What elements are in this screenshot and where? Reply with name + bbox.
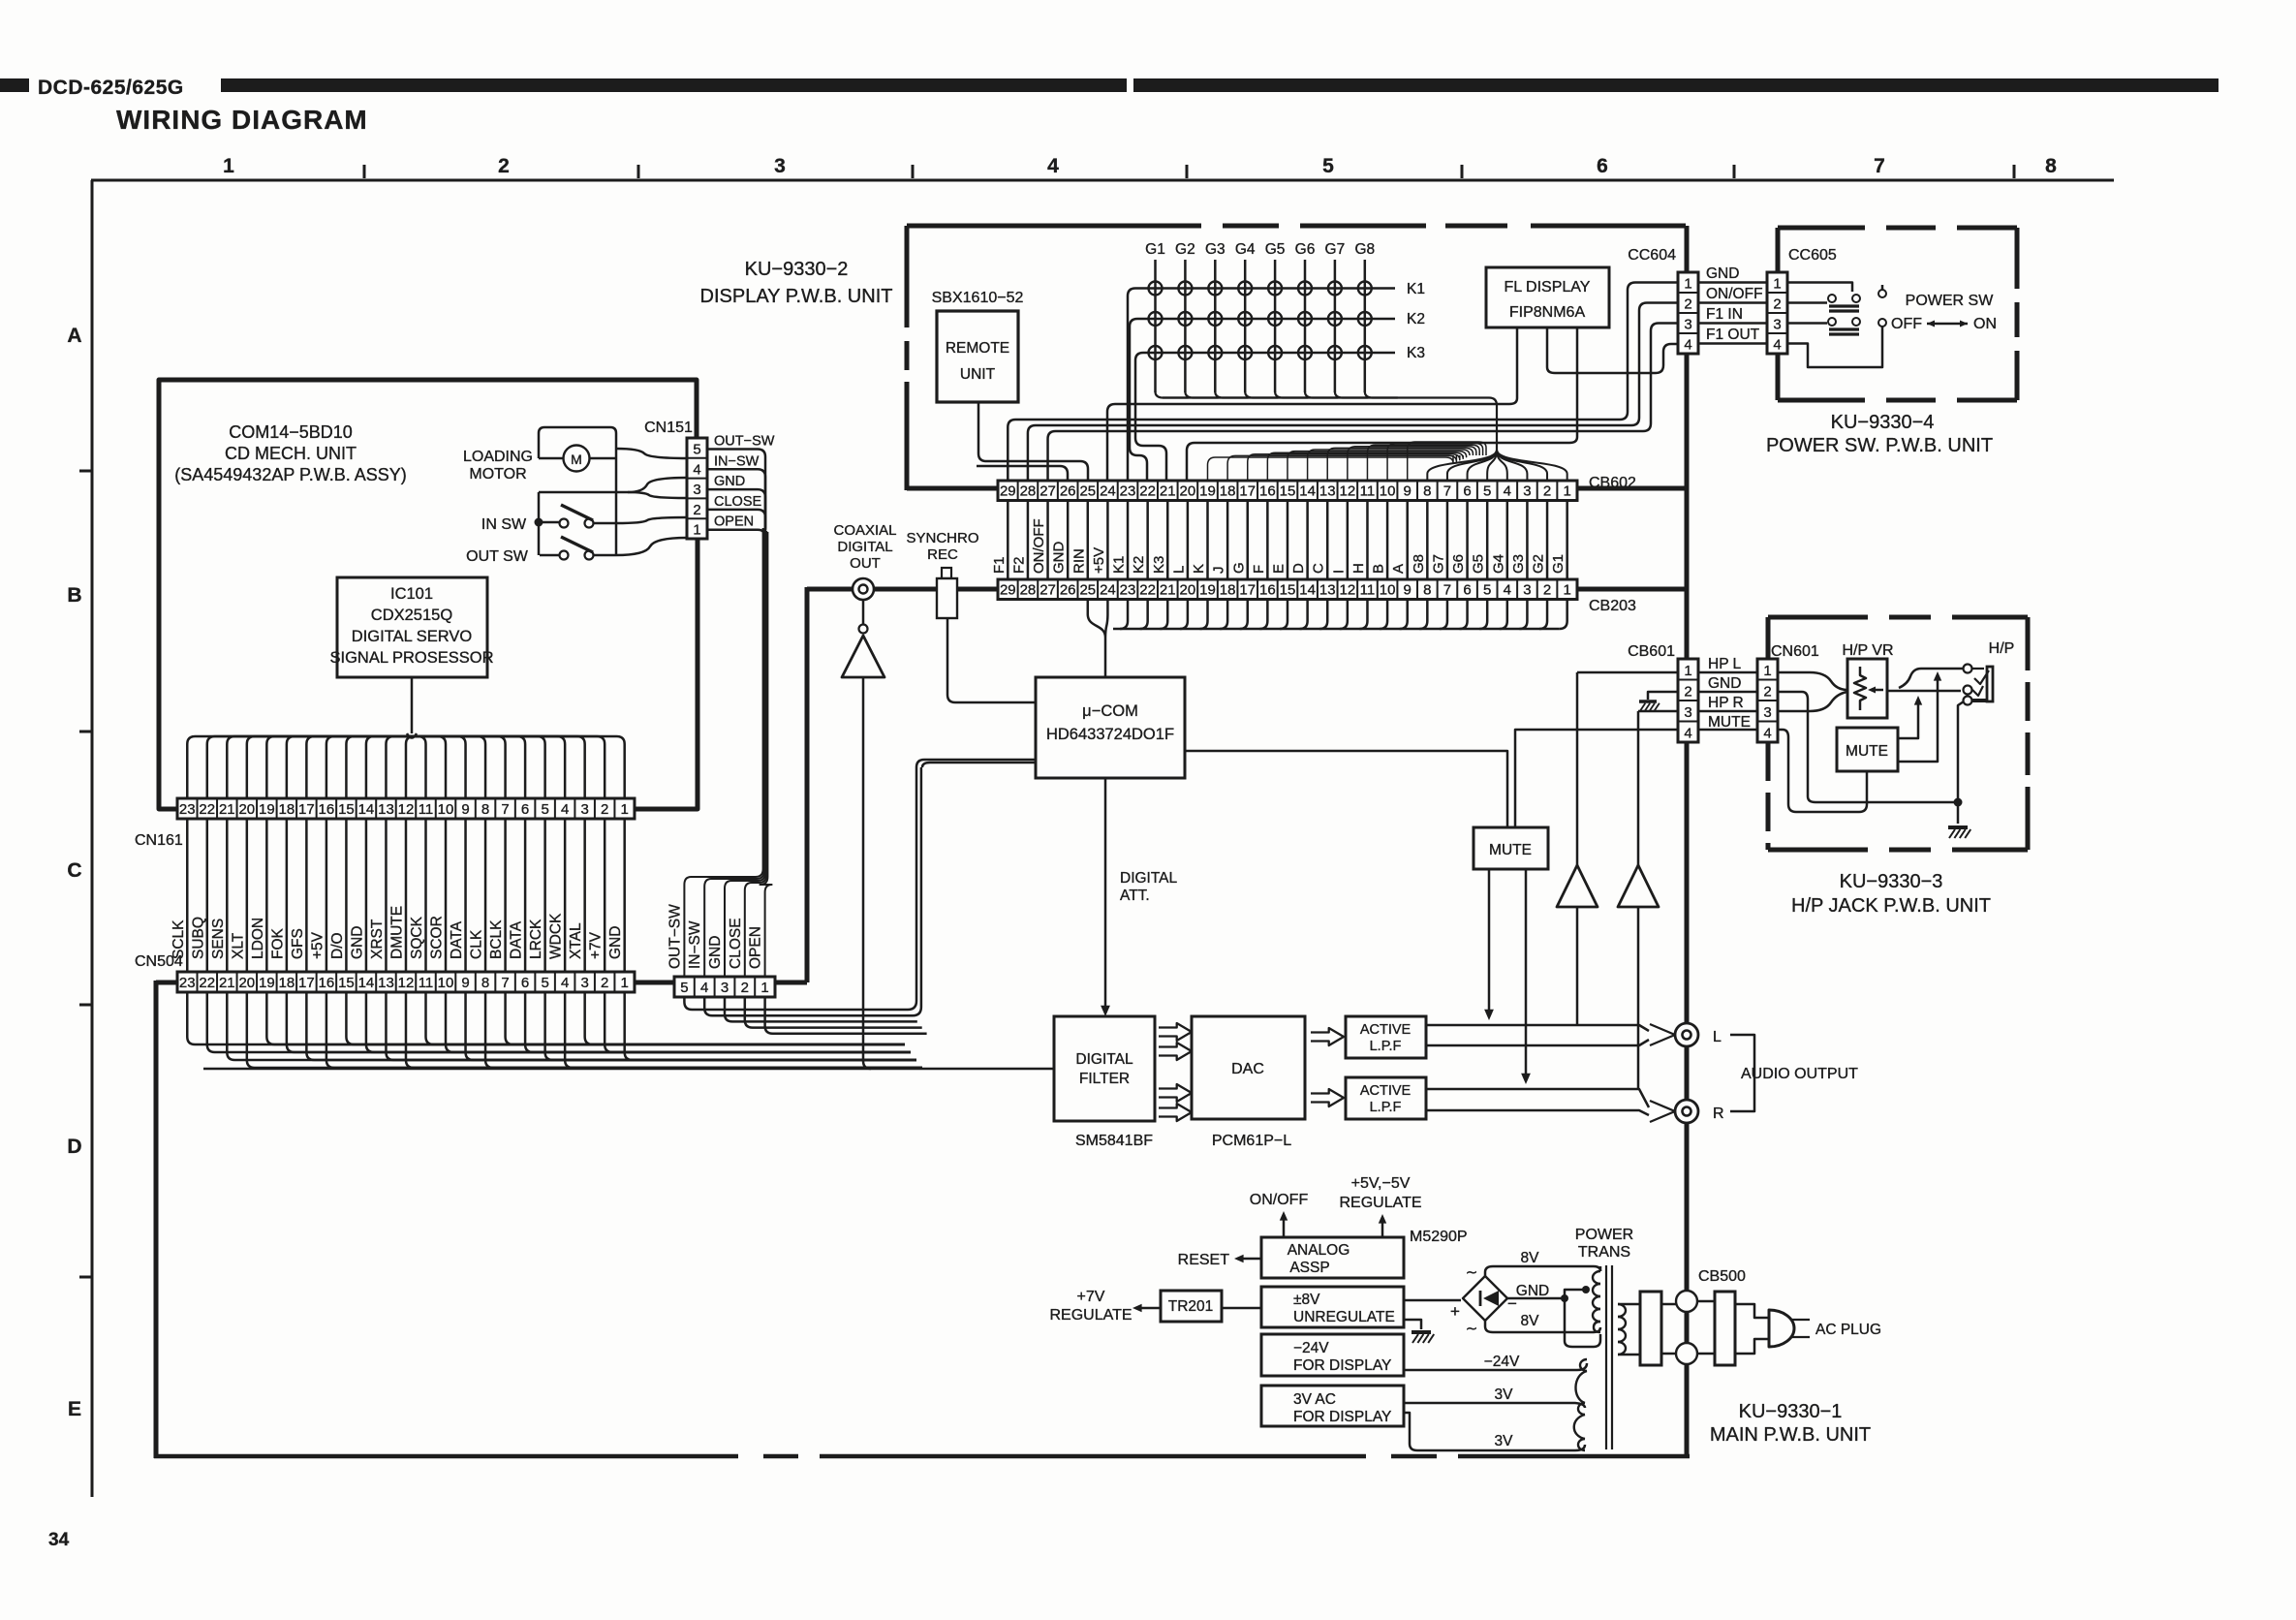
switch S1 in-sw [560,519,569,528]
svg-text:−24V: −24V [1484,1354,1520,1370]
svg-text:HD6433724DO1F: HD6433724DO1F [1046,726,1174,743]
svg-text:1: 1 [1684,276,1691,293]
svg-text:COM14−5BD10: COM14−5BD10 [229,422,353,442]
wire FL display pin to CB602 pin24 [1107,327,1517,481]
svg-text:4: 4 [1773,337,1781,354]
frame column tick marks [364,165,2014,178]
wire 3V bottom [1404,1413,1585,1450]
svg-text:5: 5 [693,442,700,458]
wires CB602 to CB203 [1008,501,1567,580]
svg-text:CB500: CB500 [1698,1268,1746,1285]
audio output bracket [1730,1035,1754,1111]
connector CN (loading sw) 5-1 row [674,977,775,997]
svg-text:11: 11 [1360,582,1376,599]
arrow on/off [1283,1215,1286,1237]
svg-text:18: 18 [1220,582,1236,599]
svg-text:10: 10 [438,801,454,818]
svg-text:OUT−SW: OUT−SW [714,434,775,450]
svg-text:29: 29 [1000,483,1016,500]
svg-text:IC101: IC101 [390,585,433,603]
svg-text:DMUTE: DMUTE [388,906,405,959]
connector CN504 row [177,972,635,992]
svg-text:21: 21 [1160,483,1176,500]
wire mute to L line arrow [1488,869,1491,1010]
svg-text:K3: K3 [1151,556,1167,574]
svg-text:6: 6 [521,801,529,818]
svg-text:6: 6 [521,975,529,991]
svg-text:6: 6 [1463,582,1471,599]
svg-text:F1 OUT: F1 OUT [1706,327,1760,343]
wire bundle G columns to CB602 pins 8-1 [1156,391,1567,481]
svg-text:REGULATE: REGULATE [1339,1195,1421,1211]
3V AC for display box [1261,1386,1404,1426]
svg-text:SM5841BF: SM5841BF [1075,1133,1153,1149]
svg-text:CN504: CN504 [135,953,183,970]
svg-text:G7: G7 [1325,241,1346,258]
svg-text:GND: GND [1051,542,1068,575]
svg-text:10: 10 [1380,483,1396,500]
page header bar [221,78,1127,92]
svg-text:R: R [1713,1106,1724,1122]
volume resistor [1854,667,1866,710]
svg-text:20: 20 [1180,582,1196,599]
svg-text:PCM61P−L: PCM61P−L [1212,1133,1291,1149]
svg-text:4: 4 [1684,726,1691,742]
svg-text:A: A [1390,564,1407,574]
svg-text:23: 23 [179,975,196,991]
svg-text:9: 9 [461,801,469,818]
svg-text:G1: G1 [1550,554,1567,574]
svg-text:SBX1610−52: SBX1610−52 [932,290,1024,306]
wire switch top rail [539,491,628,494]
svg-text:3: 3 [580,801,588,818]
svg-text:FIP8NM6A: FIP8NM6A [1509,304,1586,321]
svg-text:25: 25 [1079,483,1096,500]
svg-text:3: 3 [580,975,588,991]
svg-text:22: 22 [199,801,215,818]
wires CN601 to volume [1778,672,1847,690]
svg-text:IN SW: IN SW [481,516,527,533]
svg-text:3: 3 [721,980,729,996]
svg-text:GFS: GFS [290,928,306,959]
wire jack top contact [1899,669,1963,688]
svg-text:CC605: CC605 [1788,247,1837,264]
svg-text:9: 9 [1404,582,1412,599]
svg-text:11: 11 [419,801,434,818]
audio output jack R [1675,1100,1698,1123]
line filter box [1640,1292,1661,1365]
svg-text:1: 1 [760,980,768,996]
svg-text:MOTOR: MOTOR [469,466,526,483]
svg-text:14: 14 [1299,582,1316,599]
svg-text:CN161: CN161 [135,832,183,849]
svg-text:OUT: OUT [850,555,881,572]
svg-text:+7V: +7V [1077,1289,1105,1305]
CD mech unit board outline COM14-5BD10 [159,380,697,809]
coax digital out jack [853,578,874,600]
svg-text:H/P VR: H/P VR [1842,642,1893,659]
svg-text:IN−SW: IN−SW [687,920,703,969]
svg-text:8: 8 [2045,155,2057,177]
svg-text:2: 2 [1773,296,1781,313]
svg-text:8V: 8V [1521,1250,1540,1266]
svg-text:LOADING: LOADING [463,449,533,465]
svg-text:MUTE: MUTE [1489,842,1532,858]
svg-text:13: 13 [378,975,394,991]
svg-text:B: B [67,584,81,607]
wire CB601 pin1 to amp L [1577,671,1678,674]
wire TR201 to unregulate [1222,1307,1261,1310]
svg-text:18: 18 [1220,483,1236,500]
wire uCOM left inputs [916,760,1036,767]
plus minus 8V unregulate box [1261,1287,1404,1327]
svg-text:CB601: CB601 [1628,643,1675,660]
wire uCOM digital att arrow [1104,778,1107,1013]
svg-text:ON/OFF: ON/OFF [1031,518,1047,574]
wire CN151 to CN161 thick link [635,539,698,809]
svg-text:E: E [1270,564,1287,574]
svg-text:E: E [68,1398,81,1420]
svg-text:K3: K3 [1407,345,1425,361]
wire fan bundle IC101 to CN161 cells [187,736,624,798]
wires CC604 to CC605 [1698,281,1767,284]
synchro rec sensor [942,568,951,578]
svg-text:29: 29 [1000,582,1016,599]
svg-text:16: 16 [319,801,335,818]
svg-text:26: 26 [1060,483,1076,500]
svg-text:28: 28 [1020,582,1037,599]
svg-text:12: 12 [1340,582,1356,599]
svg-text:POWER SW. P.W.B. UNIT: POWER SW. P.W.B. UNIT [1766,435,1993,456]
svg-text:24: 24 [1100,483,1116,500]
frame row tick marks [79,471,93,1277]
svg-text:1: 1 [693,522,700,539]
svg-text:+5V,−5V: +5V,−5V [1351,1175,1411,1192]
wire bundle CB602 mid pins texture [1208,442,1487,481]
wire CN504 left stub to main board edge [156,981,178,985]
svg-text:SIGNAL PROSESSOR: SIGNAL PROSESSOR [329,649,493,667]
svg-text:CN151: CN151 [644,420,693,436]
svg-text:ACTIVE: ACTIVE [1360,1083,1412,1099]
svg-text:ON/OFF: ON/OFF [1706,286,1763,302]
svg-text:2: 2 [1543,582,1551,599]
active LPF L box [1346,1016,1426,1058]
connector CN161 row [177,798,635,819]
main board left edge KU-9330-1 [154,981,159,1458]
svg-text:UNREGULATE: UNREGULATE [1293,1309,1395,1325]
wire CN601 pin2 gnd net [1778,692,1958,802]
svg-text:23: 23 [1120,582,1136,599]
svg-text:28: 28 [1020,483,1037,500]
frame left border [91,180,94,1497]
svg-text:8V: 8V [1521,1313,1540,1329]
svg-text:8: 8 [481,975,489,991]
svg-text:CD MECH. UNIT: CD MECH. UNIT [225,444,357,463]
svg-text:∼: ∼ [1466,1321,1478,1337]
svg-text:COAXIAL: COAXIAL [833,522,896,539]
svg-text:34: 34 [48,1530,70,1550]
svg-text:4: 4 [561,975,569,991]
remote unit box [937,311,1018,402]
svg-text:L: L [1713,1029,1722,1045]
wire motor loop [539,427,616,458]
signal name labels between CN161 and CN504 [171,906,624,959]
headphone amp R [1618,865,1659,907]
svg-text:23: 23 [179,801,196,818]
wires filter to CB500 [1661,1303,1676,1306]
svg-text:GND: GND [714,474,745,489]
node IN SW junction [535,518,543,527]
wires motor+switch harness to CN151 [616,449,687,458]
svg-text:L.P.F: L.P.F [1370,1100,1402,1115]
svg-text:DATA: DATA [509,920,525,959]
svg-text:1: 1 [1563,582,1570,599]
connector CB500 circles [1676,1291,1697,1312]
wire thick bus into CB203 [807,587,998,592]
svg-text:3: 3 [1684,704,1691,721]
svg-text:13: 13 [1319,582,1336,599]
svg-text:2: 2 [1684,684,1691,701]
ground at CB601 pin2 [1648,692,1678,700]
svg-text:F1: F1 [991,556,1008,574]
wires CB500 to plug filter [1697,1300,1715,1303]
svg-text:15: 15 [338,975,355,991]
main board bottom edge dashed [154,1454,738,1459]
ground hp board [1948,827,1970,838]
svg-text:GND: GND [1708,675,1741,692]
svg-text:OPEN: OPEN [714,514,754,530]
svg-text:15: 15 [1280,483,1296,500]
svg-text:17: 17 [298,975,315,991]
svg-text:23: 23 [1120,483,1136,500]
svg-text:POWER SW: POWER SW [1906,293,1995,309]
node gnd junction [1954,798,1963,807]
wire mute to R line arrow [1525,869,1528,1074]
svg-text:H: H [1350,563,1367,574]
svg-text:F2: F2 [1010,556,1027,574]
svg-text:4: 4 [1504,582,1511,599]
wires CB602 pins 29-26 to CC604 [977,283,1678,482]
svg-text:WDCK: WDCK [548,913,565,959]
wires CN161 to CN504 with signal names [187,819,624,972]
svg-text:FOR DISPLAY: FOR DISPLAY [1293,1409,1391,1425]
svg-text:12: 12 [398,975,415,991]
svg-text:7: 7 [1443,483,1451,500]
svg-text:M: M [571,452,582,467]
svg-text:19: 19 [1199,582,1216,599]
svg-text:GND: GND [707,936,724,969]
frame row letters [67,325,81,1420]
svg-text:G8: G8 [1354,241,1375,258]
FL display box FIP8NM6A [1486,267,1609,327]
svg-text:10: 10 [438,975,454,991]
wire 3V top [1404,1403,1585,1408]
svg-text:DIGITAL: DIGITAL [1120,870,1178,887]
display board bottom stub right [1577,486,1687,491]
svg-text:2: 2 [601,801,608,818]
svg-text:18: 18 [279,801,295,818]
svg-text:G2: G2 [1531,554,1547,574]
svg-text:CLK: CLK [469,929,485,959]
connector CN151 [687,438,707,539]
wire bridge top to transformer [1485,1266,1600,1276]
svg-text:1: 1 [1563,483,1570,500]
svg-text:+5V: +5V [309,931,326,959]
svg-text:SYNCHRO: SYNCHRO [906,530,978,546]
power transformer T1 secondary coils [1574,1266,1600,1450]
svg-text:ATT.: ATT. [1120,888,1150,904]
svg-text:KU−9330−2: KU−9330−2 [745,259,849,280]
svg-text:OFF: OFF [1891,316,1922,332]
svg-text:2: 2 [1763,684,1771,701]
svg-text:6: 6 [1463,483,1471,500]
svg-text:H/P: H/P [1989,640,2015,657]
wire connector to vertical trunk [775,981,807,985]
svg-text:20: 20 [238,975,255,991]
svg-text:ON/OFF: ON/OFF [1250,1192,1309,1208]
wire mute to top contact arrow [1898,675,1938,762]
wire bundle CN151 tags down to lower connector [684,528,762,977]
transformer core [1605,1265,1607,1449]
svg-text:5: 5 [1483,483,1491,500]
svg-text:10: 10 [1380,582,1396,599]
wire FL display pin to CB602 pin20 [1187,327,1577,481]
svg-text:L: L [1170,566,1187,574]
svg-text:9: 9 [461,975,469,991]
svg-text:G6: G6 [1295,241,1316,258]
analog assp box [1261,1237,1404,1278]
svg-text:1: 1 [1763,663,1771,679]
svg-text:CDX2515Q: CDX2515Q [371,607,453,624]
ground power [1412,1332,1434,1343]
svg-text:FILTER: FILTER [1079,1071,1130,1087]
display board right edge trunk [1685,226,1690,1456]
svg-text:OPEN: OPEN [748,926,764,969]
power sw board outline KU-9330-4 dashed [1778,226,1865,231]
wire -24V to transformer [1404,1363,1587,1370]
inverter buffer bubble [859,625,868,634]
svg-text:G4: G4 [1235,241,1256,258]
svg-text:G1: G1 [1145,241,1165,258]
svg-text:14: 14 [1299,483,1316,500]
svg-text:11: 11 [419,975,434,991]
svg-text:1: 1 [223,155,234,177]
svg-text:DAC: DAC [1231,1061,1264,1077]
svg-text:14: 14 [358,975,375,991]
wire unregulate to bridge [1404,1299,1461,1302]
svg-text:SCOR: SCOR [429,916,446,959]
svg-text:G7: G7 [1430,554,1446,574]
minus 24V for display box [1261,1334,1404,1376]
wire CN504 right stub to OUT-SW connector [635,981,674,985]
svg-text:AC PLUG: AC PLUG [1815,1322,1881,1338]
connector CB601 [1678,659,1698,742]
regulator TR201 [1161,1291,1222,1322]
frame column numbers [223,155,2057,177]
audio output jack L [1675,1023,1698,1046]
wire bundle below OUT-SW connector to uCOM [684,767,926,1034]
svg-text:11: 11 [1360,483,1376,500]
svg-text:CC604: CC604 [1628,247,1676,264]
svg-text:C: C [67,859,81,882]
svg-text:REC: REC [927,546,958,563]
svg-text:24: 24 [1100,582,1116,599]
wire IC101 to CN161 fan [411,677,414,733]
svg-text:+7V: +7V [588,931,605,959]
svg-text:LRCK: LRCK [528,919,544,959]
svg-text:XRST: XRST [369,919,386,959]
svg-text:DISPLAY P.W.B. UNIT: DISPLAY P.W.B. UNIT [700,286,893,307]
svg-text:XLT: XLT [230,932,246,959]
svg-text:9: 9 [1404,483,1412,500]
wire jack sleeve to gnd [1958,701,1964,824]
svg-text:2: 2 [601,975,608,991]
svg-text:13: 13 [378,801,394,818]
svg-text:5: 5 [1322,155,1334,177]
bridge rectifier D1 [1463,1276,1507,1321]
bus arrows DAC to LPF [1311,1028,1344,1045]
svg-text:G2: G2 [1175,241,1195,258]
svg-text:3V AC: 3V AC [1293,1391,1336,1408]
svg-text:2: 2 [1543,483,1551,500]
svg-text:3V: 3V [1495,1433,1514,1449]
wire bridge right gnd tap [1507,1297,1565,1300]
svg-text:DIGITAL: DIGITAL [1075,1051,1133,1068]
svg-text:AUDIO OUTPUT: AUDIO OUTPUT [1741,1066,1858,1082]
loading motor M1 [564,446,590,472]
svg-text:22: 22 [1139,483,1156,500]
svg-text:G5: G5 [1471,554,1487,574]
svg-text:ACTIVE: ACTIVE [1360,1022,1412,1038]
svg-text:1: 1 [1773,276,1781,293]
svg-text:RESET: RESET [1178,1252,1230,1268]
rotated labels OUT-SW IN-SW GND CLOSE OPEN [667,904,763,969]
svg-text:5: 5 [541,801,548,818]
svg-text:WIRING DIAGRAM: WIRING DIAGRAM [116,105,368,135]
svg-text:F1 IN: F1 IN [1706,306,1743,323]
svg-text:19: 19 [259,801,275,818]
svg-text:4: 4 [1684,337,1691,354]
svg-text:13: 13 [1319,483,1336,500]
svg-text:25: 25 [1079,582,1096,599]
svg-text:GND: GND [1706,265,1739,282]
svg-text:+5V: +5V [1091,547,1107,574]
svg-text:I: I [1330,570,1347,574]
svg-text:MUTE: MUTE [1846,743,1888,760]
svg-text:7: 7 [1443,582,1451,599]
svg-text:CLOSE: CLOSE [714,494,761,510]
svg-text:SENS: SENS [210,919,227,959]
audio R lines to output [1426,1089,1649,1115]
svg-text:CN601: CN601 [1771,643,1819,660]
svg-text:REGULATE: REGULATE [1049,1307,1132,1324]
svg-text:DIGITAL: DIGITAL [837,539,892,555]
IC101 digital servo box [337,577,487,677]
svg-text:D/O: D/O [329,932,346,959]
power transformer primary coil [1618,1304,1626,1355]
svg-text:LDON: LDON [250,918,266,959]
svg-text:(SA4549432AP P.W.B. ASSY): (SA4549432AP P.W.B. ASSY) [174,465,406,484]
svg-text:OUT−SW: OUT−SW [667,904,683,969]
svg-text:MUTE: MUTE [1708,714,1751,731]
wire volume to jack tip [1887,690,1961,693]
svg-text:15: 15 [1280,582,1296,599]
svg-text:5: 5 [541,975,548,991]
svg-text:12: 12 [1340,483,1356,500]
svg-text:2: 2 [693,502,700,518]
svg-text:MAIN P.W.B. UNIT: MAIN P.W.B. UNIT [1710,1424,1871,1446]
svg-text:ON: ON [1973,316,1997,332]
